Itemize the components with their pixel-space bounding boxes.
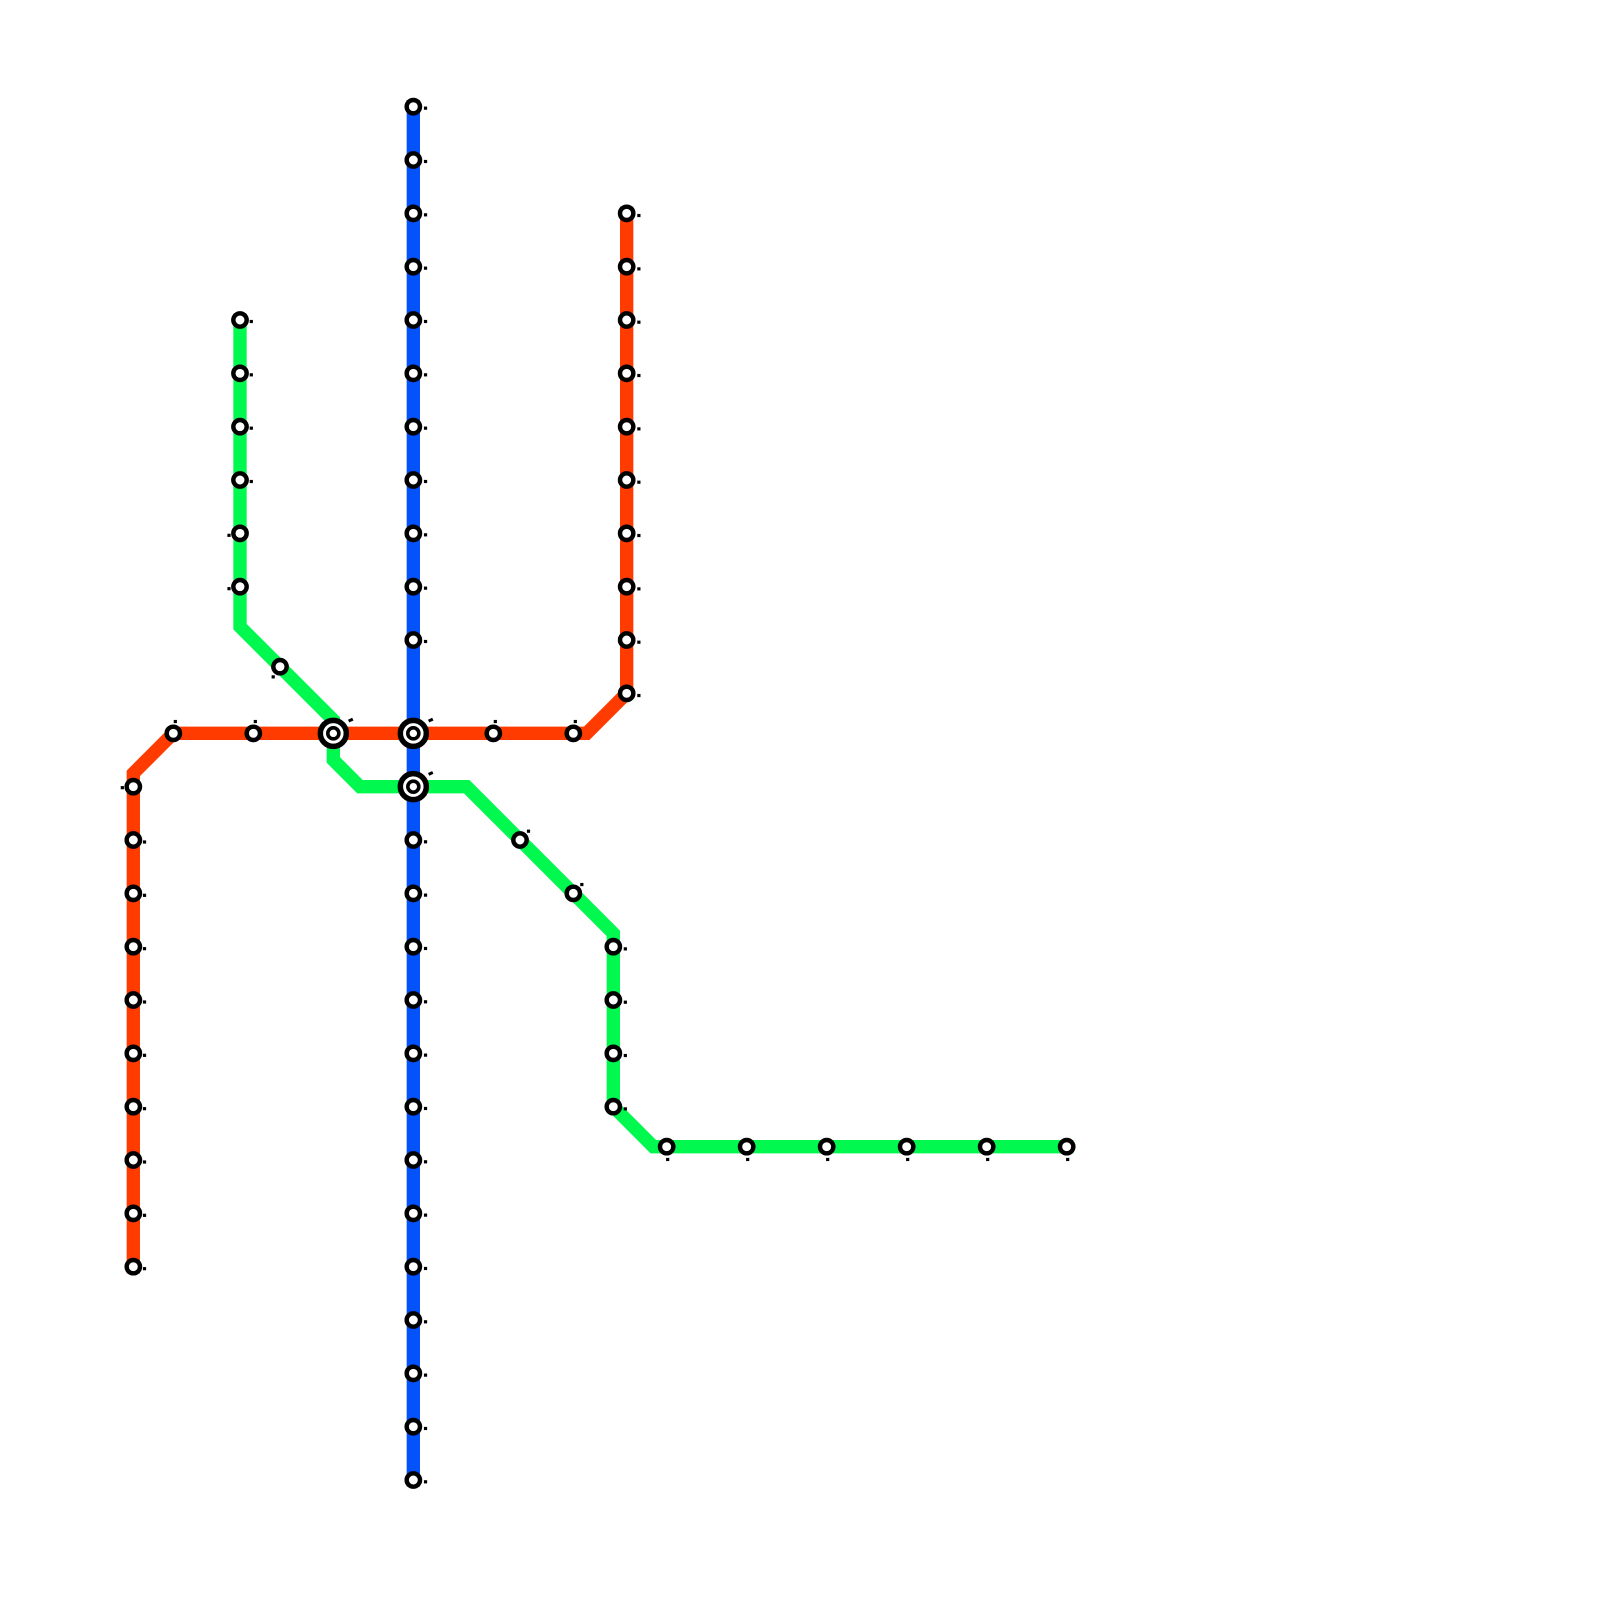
station G3 — [233, 420, 253, 433]
station B20 — [407, 1260, 427, 1273]
station G6 — [227, 580, 246, 593]
station B23 — [407, 1420, 427, 1433]
station B6 — [407, 367, 427, 380]
station R15 — [121, 780, 140, 793]
station B12 — [407, 833, 427, 846]
station G8 — [513, 830, 530, 847]
station G11 — [607, 993, 627, 1006]
station R4 — [620, 367, 640, 380]
station B7 — [407, 420, 427, 433]
station R23 — [127, 1207, 146, 1220]
station R16 — [127, 833, 146, 846]
station B15 — [407, 993, 427, 1006]
station G10 — [607, 940, 627, 953]
station B9 — [407, 527, 427, 540]
station B16 — [407, 1047, 427, 1060]
station B4 — [407, 260, 427, 273]
station B13 — [407, 887, 427, 900]
station B11 — [407, 633, 427, 646]
station R21 — [127, 1100, 146, 1113]
station R10 — [620, 687, 640, 700]
station G15 — [740, 1140, 753, 1161]
station B19 — [407, 1207, 427, 1220]
station B14 — [407, 940, 427, 953]
station R3 — [620, 313, 640, 326]
station B18 — [407, 1153, 427, 1166]
station B1 — [407, 100, 427, 113]
station G5 — [227, 527, 246, 540]
station B10 — [407, 580, 427, 593]
station R6 — [620, 473, 640, 486]
station R19 — [127, 993, 146, 1006]
interchange red-blue — [400, 718, 433, 747]
station B21 — [407, 1313, 427, 1326]
station R24 — [127, 1260, 146, 1273]
station G4 — [233, 473, 253, 486]
station B17 — [407, 1100, 427, 1113]
station G1 — [233, 313, 253, 326]
station R2 — [620, 260, 640, 273]
station B5 — [407, 313, 427, 326]
station G14 — [660, 1140, 673, 1161]
station R11 — [567, 720, 580, 740]
station G16 — [820, 1140, 833, 1161]
station R20 — [127, 1047, 146, 1060]
station G12 — [607, 1047, 627, 1060]
interchange green-blue — [400, 771, 433, 800]
station R22 — [127, 1153, 146, 1166]
station G2 — [233, 367, 253, 380]
station R1 — [620, 207, 640, 220]
blue line — [407, 107, 420, 1480]
station R7 — [620, 527, 640, 540]
station G9 — [567, 883, 584, 900]
green line — [240, 320, 1067, 1147]
station R14 — [167, 720, 180, 740]
station B2 — [407, 153, 427, 166]
station G7 — [272, 660, 287, 678]
station R12 — [487, 720, 500, 740]
station G19 — [1060, 1140, 1073, 1161]
station B24 — [407, 1473, 427, 1486]
station R5 — [620, 420, 640, 433]
station R8 — [620, 580, 640, 593]
station R9 — [620, 633, 640, 646]
station G18 — [980, 1140, 993, 1161]
red line — [133, 213, 626, 1266]
station R13 — [247, 720, 260, 740]
station R18 — [127, 940, 146, 953]
station G17 — [900, 1140, 913, 1161]
station B3 — [407, 207, 427, 220]
station G13 — [607, 1100, 627, 1113]
station B22 — [407, 1367, 427, 1380]
interchange red-green — [320, 718, 353, 747]
station R17 — [127, 887, 146, 900]
station B8 — [407, 473, 427, 486]
